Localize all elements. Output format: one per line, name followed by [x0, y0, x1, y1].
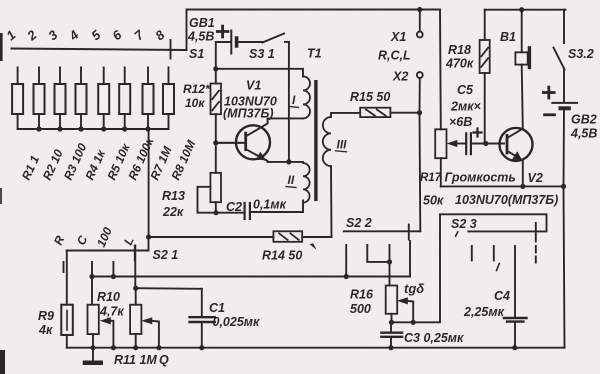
transistor V1	[216, 118, 270, 161]
switch S2.3 contact ticks	[471, 246, 473, 261]
node base junction	[213, 140, 218, 145]
resistor R16	[386, 262, 398, 322]
switch S1 bus line	[12, 49, 187, 51]
wire to V2 base	[486, 143, 504, 145]
switch S2.1 contact tick 100	[112, 262, 114, 276]
wire bottom bus	[67, 347, 565, 349]
capacitor C4	[504, 318, 527, 348]
R10 wiper arrow	[100, 317, 114, 347]
wire battery+ rail down to R12	[215, 42, 217, 69]
earphone B1	[515, 10, 531, 129]
switch S3.2	[554, 10, 566, 101]
switch S2.1 contact tick C	[91, 262, 93, 277]
switch S2.2 contact 3	[389, 245, 391, 262]
wire S2.3 contact to C4	[514, 246, 516, 317]
node R16 bottom junction	[389, 320, 394, 325]
resistor R18	[480, 10, 490, 144]
potentiometer R11	[130, 288, 141, 347]
resistor R12 (preset)	[211, 69, 222, 143]
terminal numbers 1-8	[3, 27, 168, 44]
resistor R4	[76, 68, 87, 130]
battery GB1	[216, 26, 263, 53]
capacitor C3	[381, 322, 402, 347]
switch S2.1 contact tick R	[63, 262, 65, 272]
switch S2.2 contact 2	[367, 245, 389, 262]
R17 wiper arrow	[447, 140, 466, 147]
switch S2.1 bus and riser	[67, 237, 149, 251]
switch S2.2 wiper tick	[408, 225, 410, 240]
node R7 rail / R14 wire junction	[146, 234, 151, 239]
wire resistor bottom bus	[18, 128, 169, 130]
wire R16 to S2.3 riser	[392, 214, 441, 322]
wire net R-C line y276.5	[92, 276, 410, 278]
switch S2.2 bar	[344, 230, 421, 232]
switch S2.3 frame	[440, 214, 547, 231]
resistor value labels R1..R8	[19, 135, 199, 182]
terminal X1	[417, 10, 423, 38]
scan edge artifacts	[0, 33, 3, 61]
node R15/X2/S2.2 junction	[417, 110, 422, 115]
wire S3.1 contact rail down	[288, 42, 290, 162]
resistor R1	[12, 68, 23, 130]
node junction dots on bus	[36, 126, 150, 131]
wire net R11/C1 line y288	[136, 287, 202, 290]
ground	[83, 348, 103, 366]
wire S1 bus up to top rail	[187, 10, 441, 51]
resistor R15	[360, 108, 419, 117]
capacitor C2	[216, 201, 303, 220]
switch S2.1 contact tick L wire to R11	[134, 246, 136, 289]
wire base	[216, 142, 242, 144]
resistor R7	[143, 68, 154, 130]
resistor R3	[55, 68, 66, 130]
switch S3.1	[263, 34, 289, 43]
resistor R9	[61, 251, 73, 348]
wire GB2 rail down to bus	[564, 186, 565, 347]
potentiometer R10	[88, 277, 99, 348]
transformer T1 core	[314, 80, 317, 201]
resistor R14	[149, 231, 332, 250]
wire top right supply	[485, 9, 566, 11]
switch S2.2 contact 1	[345, 245, 347, 277]
wire emitter to rail	[268, 161, 289, 163]
wire R7 bus down to S2.1 node	[148, 129, 150, 237]
switch S1 wiper tick	[170, 40, 172, 59]
transformer winding I	[268, 76, 310, 118]
node R18/C5/base junction	[483, 141, 488, 146]
battery GB2	[543, 87, 577, 186]
wire to transformer winding I top	[216, 69, 303, 77]
resistor R6	[119, 68, 130, 130]
resistor R2	[34, 68, 45, 130]
capacitor C1	[190, 289, 215, 348]
wire X2 node down to S2.2 bar	[419, 113, 422, 232]
transformer winding III	[323, 113, 360, 237]
switch S2.1 wiper tick	[134, 246, 136, 261]
switch S2.3 wiper tick	[535, 223, 537, 242]
R16 wiper arrow	[397, 297, 413, 322]
node battery+/R12/windingI junction	[213, 66, 218, 71]
wire R17 rail from top wire	[439, 10, 442, 130]
wire emitter bus	[441, 185, 564, 187]
switch S2.2 contact 4 link	[409, 241, 411, 277]
capacitor C5	[466, 129, 486, 155]
S2.1 contact labels	[51, 225, 178, 262]
resistor R8	[163, 68, 174, 130]
terminal X2	[417, 72, 423, 113]
potentiometer R17	[435, 129, 446, 186]
resistor R5	[98, 68, 109, 130]
transistor V2	[500, 128, 533, 187]
R11 wiper arrow	[141, 317, 159, 347]
transformer winding II	[289, 162, 310, 203]
resistor R13	[198, 143, 222, 213]
